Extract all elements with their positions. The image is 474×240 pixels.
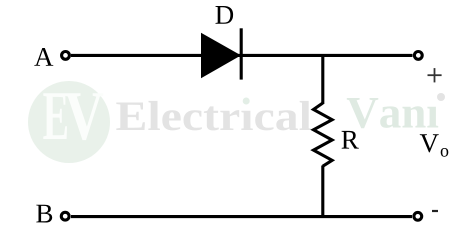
- resistor R zigzag: [314, 103, 333, 166]
- label +: [428, 68, 442, 82]
- wire resistor bottom lead: [321, 166, 324, 217]
- diode D: [201, 28, 241, 79]
- watermark text Electrical: [116, 101, 311, 130]
- terminal B: [61, 212, 69, 220]
- terminal - output: [414, 212, 422, 220]
- wire bottom rail B to -: [71, 215, 412, 218]
- wire top rail A to +: [71, 54, 413, 57]
- watermark logo circle EV: [28, 81, 110, 163]
- label D: [216, 6, 234, 24]
- label R: [342, 131, 359, 149]
- watermark text Vani: [347, 98, 438, 128]
- label -: [432, 210, 438, 212]
- wire resistor top lead: [321, 55, 324, 104]
- terminal A: [62, 52, 70, 60]
- watermark i dot green on Electric: [243, 98, 250, 105]
- label B: [36, 205, 52, 223]
- label Vo: [420, 134, 449, 156]
- label A: [34, 48, 53, 66]
- terminal + output: [414, 52, 422, 60]
- watermark i dot gray on Vani: [437, 93, 445, 101]
